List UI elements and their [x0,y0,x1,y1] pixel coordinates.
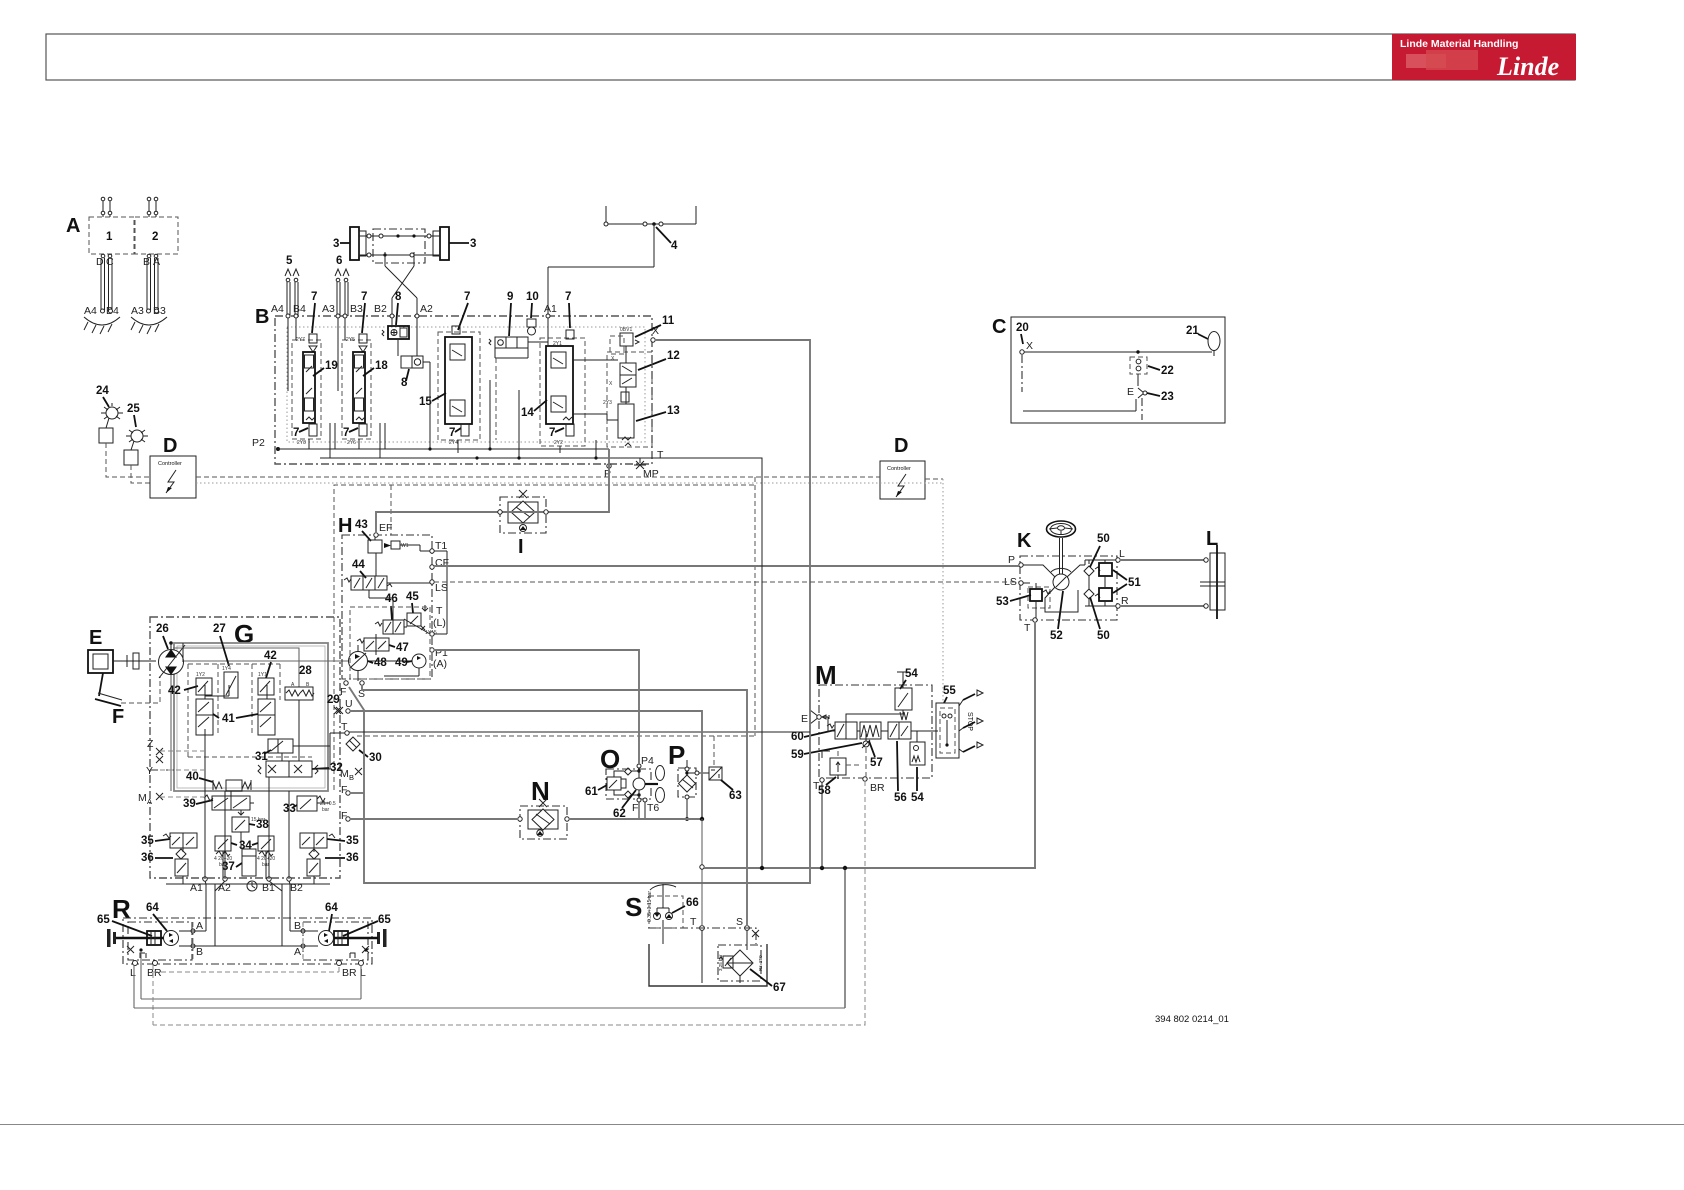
svg-text:2Y2: 2Y2 [554,440,563,446]
svg-text:49: 49 [395,657,408,669]
svg-text:53: 53 [996,596,1009,608]
wheel circuit wires [205,884,207,931]
valves 34 [215,836,231,851]
svg-text:45: 45 [406,591,419,603]
svg-text:9: 9 [507,291,513,303]
svg-text:57: 57 [870,757,883,769]
svg-text:N: N [531,776,550,806]
svg-text:7: 7 [549,427,555,439]
svg-text:P: P [604,468,611,480]
K T down [1034,622,1036,868]
svg-text:W1: W1 [401,543,409,549]
internal wires B [287,318,289,391]
svg-text:U: U [345,698,353,710]
wire 4 to A1 [653,224,655,267]
P1(A) line H to fan unit [434,650,639,764]
svg-text:F: F [340,686,346,698]
valve 33 [297,796,317,811]
svg-text:10: 10 [526,291,539,303]
ports A/B [193,922,303,960]
svg-text:1Y2: 1Y2 [196,672,205,678]
svg-text:67: 67 [773,982,786,994]
hose pair B/A [146,258,148,310]
svg-text:L: L [130,967,136,979]
svg-text:3.25 bar: 3.25 bar [718,954,723,971]
svg-text:S: S [736,916,743,928]
svg-text:(A): (A) [433,658,447,670]
svg-text:LS: LS [435,582,448,594]
svg-text:46: 46 [385,593,398,605]
svg-text:2Y5: 2Y5 [346,337,355,343]
svg-text:23: 23 [1161,391,1174,403]
svg-text:1Y4: 1Y4 [222,666,231,672]
wires from sensors to controller [106,443,150,477]
svg-text:M: M [340,768,349,780]
svg-text:E: E [1127,386,1134,398]
svg-text:T: T [1024,622,1031,634]
svg-text:8: 8 [395,291,402,303]
S line H to tank [362,685,747,926]
svg-text:Z: Z [147,738,154,750]
svg-text:29: 29 [327,694,340,706]
svg-text:63: 63 [729,790,742,802]
svg-text:42: 42 [168,685,181,697]
svg-text:Y: Y [146,765,153,777]
svg-text:B3: B3 [350,303,363,315]
drain ports [133,961,138,966]
svg-text:50: 50 [1097,630,1110,642]
svg-text:BR: BR [342,967,357,979]
pedal F [99,673,103,696]
svg-text:Linde Material Handling: Linde Material Handling [1400,38,1518,50]
valve 54 bottom [910,742,925,765]
svg-text:54: 54 [911,792,924,804]
svg-text:3: 3 [333,238,339,250]
svg-text:(L): (L) [433,617,446,629]
svg-text:7: 7 [343,427,349,439]
steering wheel [1047,521,1076,537]
svg-text:14: 14 [521,407,534,419]
drop to R return [844,868,846,1008]
svg-text:28: 28 [299,665,312,677]
svg-text:56: 56 [894,792,907,804]
lightning bolt [166,470,176,493]
svg-text:B: B [255,306,269,328]
valve 56 [888,722,911,739]
valves 41 [196,699,213,715]
P port, MP, T [607,464,611,468]
internal G wires [204,729,206,879]
valve 32 [266,761,312,777]
svg-text:S: S [625,892,642,922]
valve 22 [1130,357,1147,374]
S F ports [344,681,348,685]
svg-text:36: 36 [346,852,359,864]
svg-text:42: 42 [264,650,277,662]
wheels [107,929,111,947]
lines K to L axle [1120,559,1205,561]
bus down to pressure switch 63 [754,477,756,736]
svg-text:65: 65 [97,914,110,926]
svg-text:bar: bar [322,807,330,813]
svg-text:A: A [147,797,152,806]
svg-text:0.35+0.15 bar: 0.35+0.15 bar [647,891,653,922]
svg-text:36: 36 [141,852,154,864]
svg-text:52: 52 [1050,630,1063,642]
svg-text:27: 27 [213,623,226,635]
bus down to H [390,485,392,535]
svg-text:26: 26 [156,623,169,635]
svg-text:I: I [518,536,524,558]
F line G through filter N [350,818,518,820]
svg-text:K: K [1017,530,1032,552]
filter I [500,497,546,533]
T drop to tank [701,819,703,926]
tilt cylinder block 2 [135,217,178,254]
return filter 67 [718,945,761,981]
svg-text:A: A [196,920,203,932]
svg-text:B: B [349,773,354,782]
tilt cylinders 3 [350,227,359,260]
svg-text:35: 35 [346,835,359,847]
check 59 [863,741,869,747]
LS line H to K dashed [434,581,1019,583]
svg-text:55: 55 [943,685,956,697]
pump 48 [349,652,368,671]
svg-text:11: 11 [662,315,675,327]
svg-text:T: T [690,916,697,928]
svg-text:43: 43 [355,519,368,531]
shock valves 51 [1099,563,1112,576]
motor 49 [412,654,426,668]
svg-text:T: T [436,605,443,617]
svg-text:7: 7 [361,291,367,303]
svg-text:1: 1 [106,231,113,243]
valve 8 lower [401,356,423,368]
svg-text:18: 18 [375,360,388,372]
svg-text:A: A [294,946,301,958]
svg-text:EF: EF [379,522,392,534]
svg-text:24: 24 [96,385,109,397]
svg-text:7: 7 [311,291,317,303]
svg-text:5: 5 [286,255,293,267]
svg-text:20: 20 [1016,322,1029,334]
brake levers [963,694,975,700]
svg-text:54: 54 [905,668,918,680]
electrical bus dashed [196,476,880,478]
fan motor 62 [633,778,645,790]
internal H wires [375,553,377,576]
svg-text:2Y6: 2Y6 [347,440,356,446]
svg-text:41: 41 [222,713,235,725]
svg-text:7: 7 [293,427,299,439]
svg-text:H: H [338,515,352,537]
svg-text:25: 25 [127,403,140,415]
svg-text:2: 2 [152,231,158,243]
svg-text:A3: A3 [131,305,144,317]
X pilot line B to G [349,340,810,883]
tilt cylinder block 1 [89,217,134,254]
Linde logo box [1392,34,1576,81]
svg-text:60: 60 [791,731,804,743]
svg-text:59: 59 [791,749,804,761]
CF line H to K [434,565,1019,567]
svg-text:D: D [894,435,908,457]
svg-text:7: 7 [565,291,571,303]
check diamonds [625,768,632,775]
svg-text:B: B [196,946,203,958]
svg-text:X: X [609,381,613,387]
hose pair D/C [100,258,102,310]
svg-text:T: T [657,449,664,461]
P line B to filter I to EF [376,449,609,533]
svg-text:A1: A1 [544,303,557,315]
svg-text:2Y8: 2Y8 [297,440,306,446]
drain wires [133,965,135,1008]
R return line [134,1007,845,1009]
valve 58 [830,758,846,775]
hose coil left [84,317,120,325]
svg-text:Linde: Linde [1496,52,1559,81]
svg-text:40: 40 [186,771,199,783]
svg-text:64: 64 [325,902,338,914]
svg-text:3: 3 [470,238,476,250]
bus down to brake switch [942,479,944,703]
svg-text:BR: BR [147,967,162,979]
svg-text:394 802 0214_01: 394 802 0214_01 [1155,1014,1229,1025]
T line G to drop [349,731,810,733]
svg-text:Controller: Controller [887,466,911,472]
svg-text:6: 6 [336,255,342,267]
cross-over hoses to B2 / A2 [384,252,386,266]
svg-text:58: 58 [818,785,831,797]
svg-text:21: 21 [1186,325,1199,337]
steering unit rotor 52 [1053,574,1069,590]
svg-text:64: 64 [146,902,159,914]
steering axle bracket 4 [605,206,607,224]
pressure switch 63 [689,772,709,774]
svg-text:P: P [1008,554,1015,566]
svg-text:2Y7: 2Y7 [296,337,305,343]
svg-text:STOP: STOP [966,712,973,731]
svg-text:B4: B4 [293,303,306,315]
svg-text:A3: A3 [322,303,335,315]
svg-text:0BV1: 0BV1 [620,327,632,333]
M T down [821,782,823,868]
svg-text:A4: A4 [271,303,284,315]
svg-text:1Y1: 1Y1 [258,672,267,678]
svg-text:B: B [294,920,301,932]
svg-text:61: 61 [585,786,598,798]
K internal wires [1023,565,1055,577]
svg-text:48: 48 [374,657,387,669]
svg-text:MP: MP [643,468,659,480]
svg-text:M: M [138,792,147,804]
svg-text:37: 37 [222,861,235,873]
svg-text:B2: B2 [374,303,387,315]
G ports to R jogs [205,881,290,891]
header bar [46,34,1575,80]
svg-text:P: P [668,740,685,770]
svg-text:65: 65 [378,914,391,926]
svg-text:T1: T1 [435,540,447,552]
svg-text:13: 13 [667,405,680,417]
svg-text:P4: P4 [641,755,654,767]
svg-text:A4: A4 [84,305,97,317]
bottom ports [203,877,207,881]
linkage E to pump [113,660,156,662]
svg-text:A: A [66,215,80,237]
svg-text:50: 50 [1097,533,1110,545]
T line from B [653,458,762,868]
svg-text:51: 51 [1128,577,1141,589]
hose coil right [131,317,167,325]
svg-text:P2: P2 [252,437,265,449]
svg-text:T6: T6 [647,802,659,814]
svg-text:F: F [632,802,638,814]
svg-text:66: 66 [686,897,699,909]
footer [0,1124,1684,1126]
measuring and drain symbols [127,946,134,953]
pins above block 2 [148,201,150,217]
svg-text:X: X [1026,340,1033,352]
svg-text:F: F [112,706,124,728]
svg-text:19: 19 [325,360,338,372]
svg-text:4: 4 [671,240,678,252]
T manifold [700,865,704,869]
svg-text:T: T [813,780,820,792]
svg-text:2Y3: 2Y3 [603,400,612,406]
svg-text:D: D [163,435,177,457]
svg-text:12: 12 [667,350,680,362]
svg-text:A2: A2 [420,303,433,315]
valve 31 [268,739,293,753]
svg-text:7: 7 [464,291,470,303]
svg-text:BR: BR [870,782,885,794]
svg-text:2Y4: 2Y4 [449,440,458,446]
big dashed enclosure [334,485,755,790]
valve 38 [238,810,244,815]
svg-text:22: 22 [1161,365,1174,377]
svg-text:30: 30 [369,752,382,764]
drive shaft line [183,660,350,662]
M internal wires [821,716,828,718]
svg-text:E: E [89,627,102,649]
svg-text:39: 39 [183,798,196,810]
svg-text:47: 47 [396,642,409,654]
axles [116,937,164,940]
BR dashed bus [153,781,865,1025]
svg-text:38: 38 [256,819,269,831]
spring 57 [860,722,881,739]
U line G to filter P [350,711,702,819]
check valves 50 [1084,566,1094,576]
svg-text:Rz=250: Rz=250 [758,955,763,971]
svg-text:7: 7 [449,427,455,439]
valve 47 [364,638,389,651]
svg-text:R: R [112,894,131,924]
svg-text:E: E [801,713,808,725]
svg-text:44: 44 [352,559,365,571]
svg-text:X: X [611,356,615,362]
T port [1033,618,1037,622]
svg-text:G: G [234,619,254,649]
pins above block 1 [102,201,104,217]
breather 66 [650,885,676,890]
svg-text:35: 35 [141,835,154,847]
svg-text:Controller: Controller [158,461,182,467]
svg-text:C: C [992,316,1006,338]
